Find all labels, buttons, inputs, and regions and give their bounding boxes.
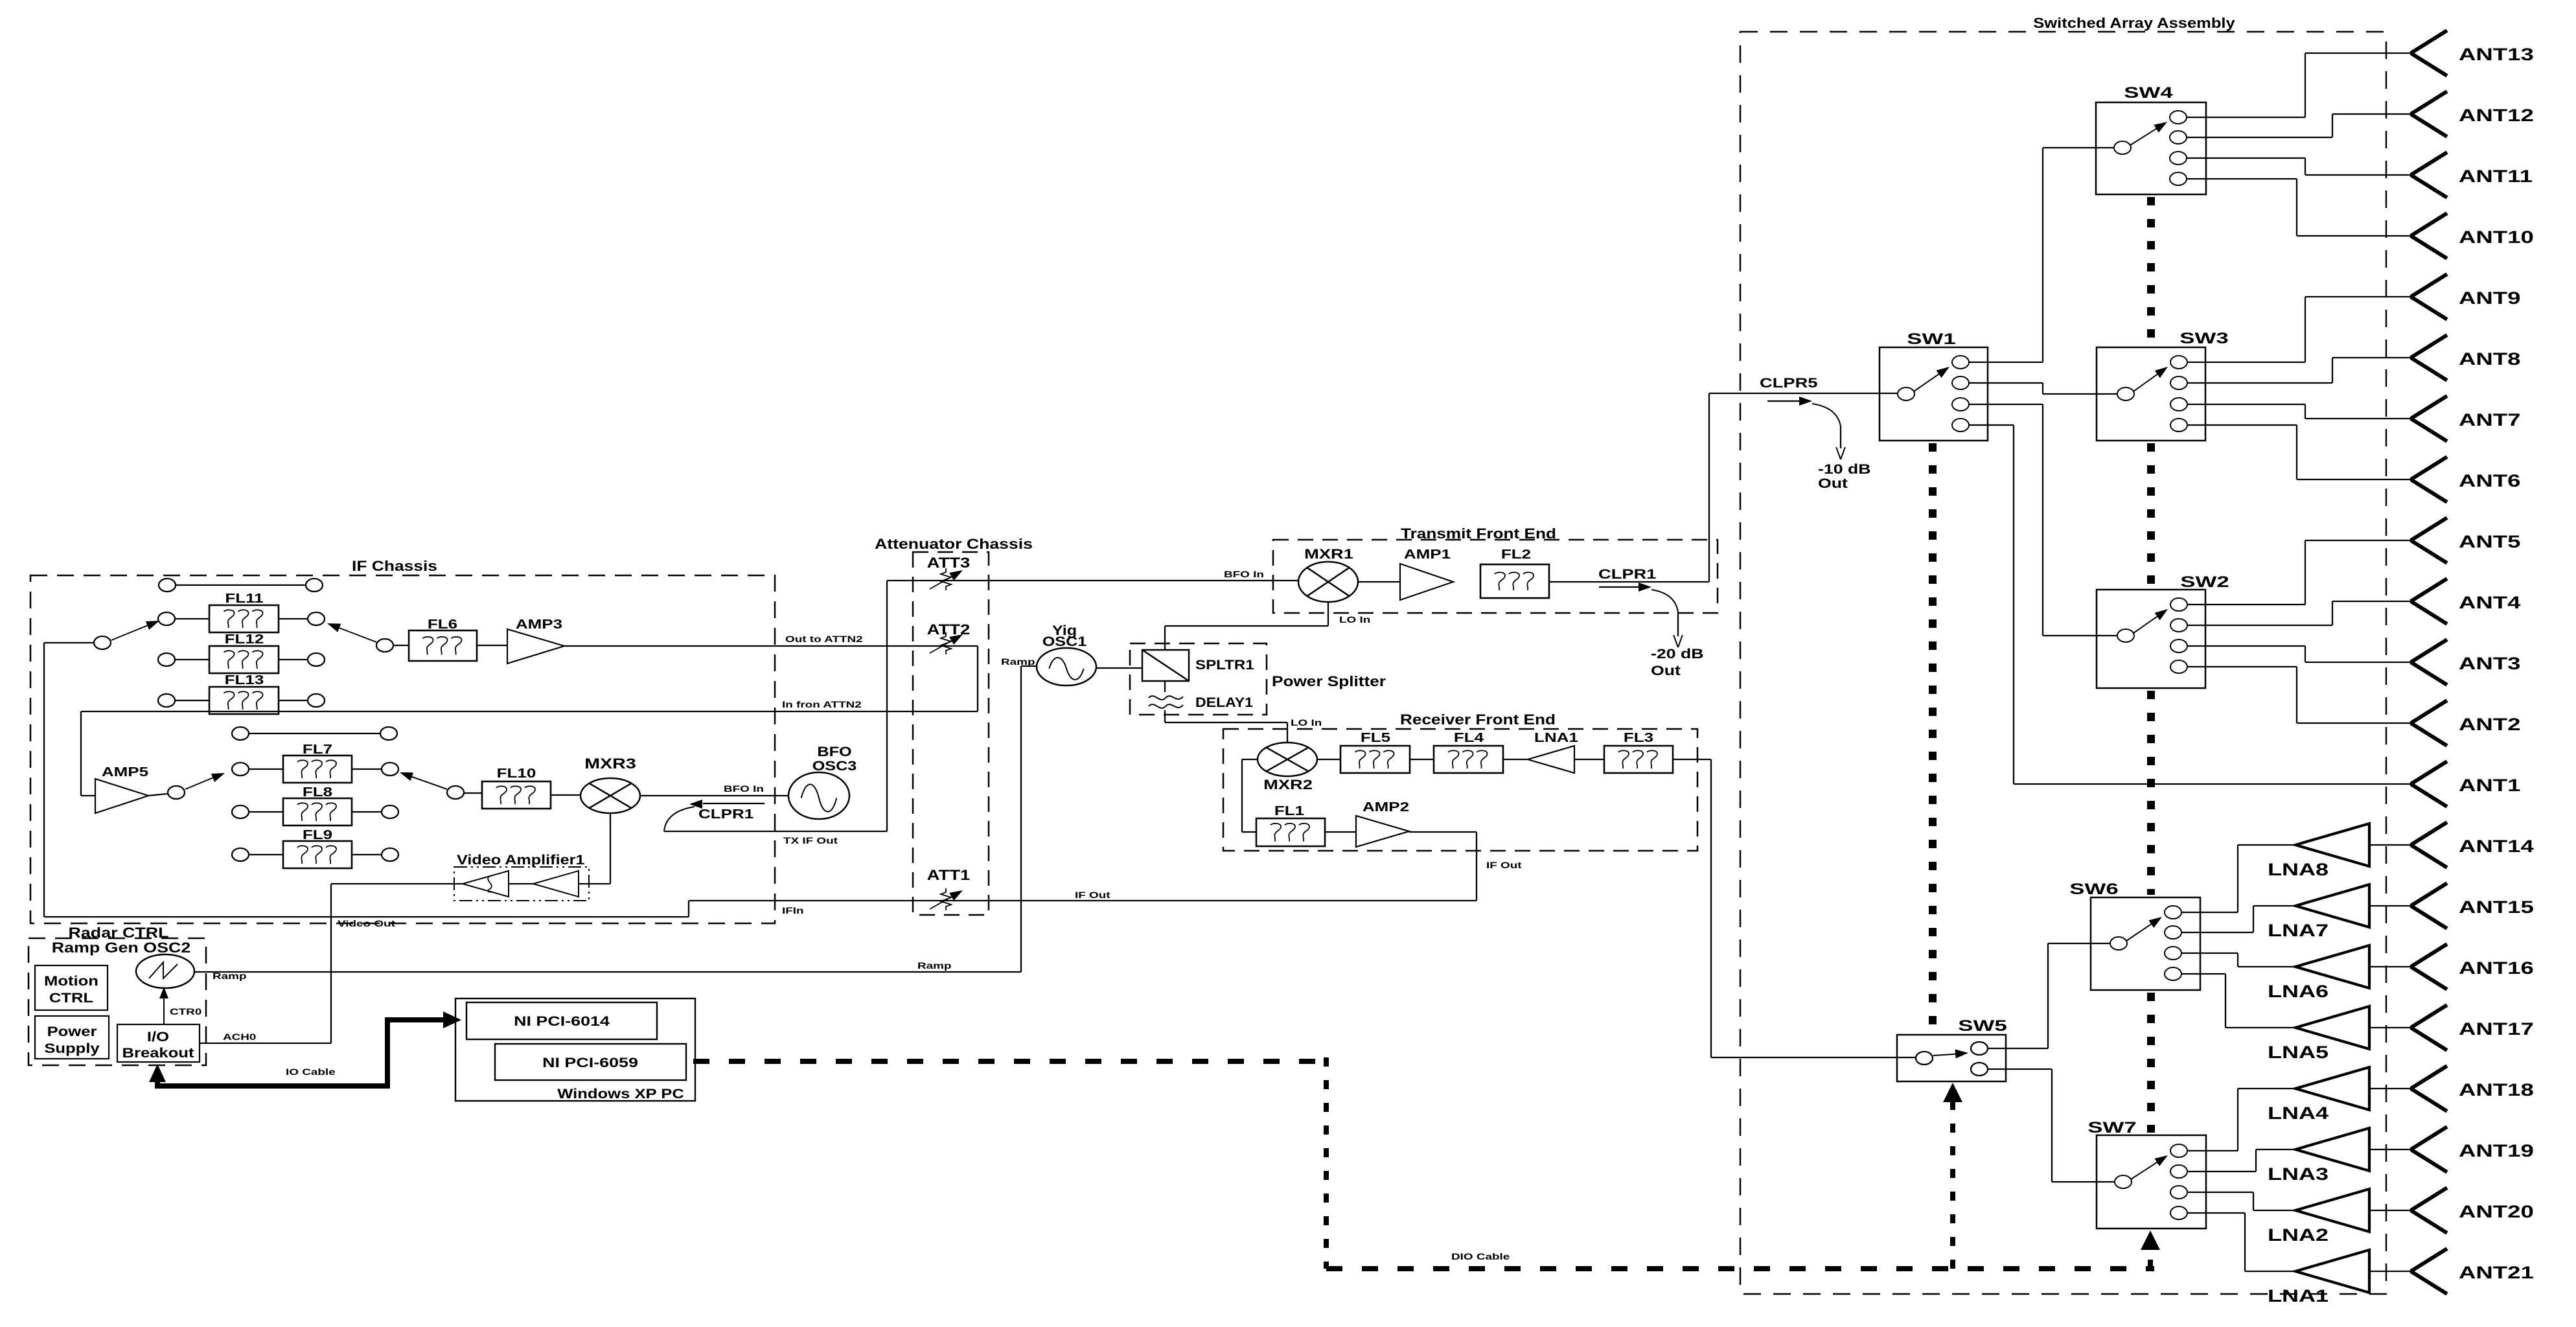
svg-text:SPLTR1: SPLTR1 — [1195, 657, 1254, 672]
svg-text:SW7: SW7 — [2087, 1119, 2136, 1136]
svg-text:IF Out: IF Out — [1075, 890, 1110, 900]
svg-text:LNA1: LNA1 — [2268, 1286, 2329, 1306]
svg-text:-10 dB: -10 dB — [1818, 462, 1871, 478]
svg-text:ANT4: ANT4 — [2459, 593, 2521, 612]
svg-text:FL13: FL13 — [225, 673, 264, 687]
svg-text:CLPR1: CLPR1 — [698, 807, 753, 821]
svg-text:FL2: FL2 — [1501, 547, 1531, 561]
svg-text:ANT19: ANT19 — [2459, 1141, 2534, 1160]
svg-text:Windows XP PC: Windows XP PC — [557, 1086, 684, 1101]
svg-text:Out: Out — [1651, 663, 1681, 679]
svg-text:LNA2: LNA2 — [2268, 1225, 2329, 1245]
svg-text:AMP2: AMP2 — [1363, 800, 1409, 814]
svg-text:CLPR1: CLPR1 — [1598, 567, 1656, 582]
svg-text:ANT9: ANT9 — [2459, 288, 2520, 308]
svg-text:IO Cable: IO Cable — [286, 1067, 336, 1077]
svg-text:CLPR5: CLPR5 — [1760, 376, 1817, 391]
svg-text:Power Splitter: Power Splitter — [1272, 674, 1386, 690]
svg-text:LNA7: LNA7 — [2268, 921, 2329, 940]
svg-text:FL4: FL4 — [1454, 730, 1484, 744]
svg-text:FL6: FL6 — [428, 617, 457, 631]
svg-text:Ramp Gen OSC2: Ramp Gen OSC2 — [52, 940, 191, 956]
svg-text:FL8: FL8 — [303, 785, 332, 799]
svg-text:AMP5: AMP5 — [102, 765, 148, 779]
svg-text:ANT16: ANT16 — [2459, 958, 2534, 978]
svg-text:SW4: SW4 — [2124, 84, 2173, 101]
svg-text:ANT13: ANT13 — [2459, 45, 2534, 64]
svg-text:FL12: FL12 — [225, 632, 264, 646]
svg-text:SW2: SW2 — [2180, 573, 2229, 590]
svg-text:I/O: I/O — [147, 1029, 169, 1044]
svg-text:AMP3: AMP3 — [516, 617, 562, 631]
svg-text:ANT8: ANT8 — [2459, 349, 2520, 369]
svg-text:ANT3: ANT3 — [2459, 654, 2520, 673]
svg-text:LNA3: LNA3 — [2268, 1164, 2329, 1184]
svg-text:OSC3: OSC3 — [812, 758, 857, 774]
svg-text:ATT1: ATT1 — [927, 868, 971, 884]
svg-text:BFO In: BFO In — [1224, 569, 1264, 579]
svg-text:FL3: FL3 — [1624, 730, 1653, 744]
svg-text:-20 dB: -20 dB — [1651, 647, 1704, 662]
svg-text:BFO: BFO — [817, 744, 851, 759]
svg-text:ANT5: ANT5 — [2459, 532, 2520, 551]
svg-text:ANT2: ANT2 — [2459, 715, 2520, 734]
svg-text:BFO In: BFO In — [724, 783, 764, 794]
svg-text:MXR2: MXR2 — [1263, 778, 1313, 792]
svg-text:In fron ATTN2: In fron ATTN2 — [782, 699, 862, 710]
svg-text:CTRL: CTRL — [49, 990, 93, 1005]
svg-text:ANT17: ANT17 — [2459, 1019, 2534, 1039]
svg-text:LO In: LO In — [1339, 614, 1370, 625]
svg-text:FL1: FL1 — [1274, 803, 1304, 818]
svg-text:FL7: FL7 — [303, 742, 332, 756]
svg-text:SW6: SW6 — [2069, 881, 2118, 897]
svg-text:Attenuator Chassis: Attenuator Chassis — [875, 537, 1033, 552]
svg-text:SW5: SW5 — [1958, 1017, 2007, 1034]
svg-text:NI PCI-6059: NI PCI-6059 — [542, 1056, 638, 1071]
svg-text:TX IF Out: TX IF Out — [783, 835, 838, 846]
svg-text:ANT21: ANT21 — [2459, 1263, 2534, 1282]
svg-text:ANT18: ANT18 — [2459, 1080, 2534, 1100]
svg-text:ANT6: ANT6 — [2459, 471, 2520, 490]
svg-text:Out to ATTN2: Out to ATTN2 — [785, 634, 863, 644]
svg-text:Switched Array Assembly: Switched Array Assembly — [2033, 16, 2235, 32]
svg-text:Receiver Front End: Receiver Front End — [1400, 712, 1556, 728]
svg-text:ANT11: ANT11 — [2459, 167, 2533, 186]
svg-text:Breakout: Breakout — [122, 1045, 194, 1060]
svg-text:Radar CTRL: Radar CTRL — [69, 925, 169, 941]
svg-text:OSC1: OSC1 — [1042, 634, 1087, 649]
svg-text:ANT10: ANT10 — [2459, 227, 2534, 247]
svg-text:Power: Power — [47, 1024, 97, 1039]
svg-text:ANT14: ANT14 — [2459, 837, 2534, 856]
svg-text:Supply: Supply — [44, 1041, 99, 1056]
svg-text:ANT20: ANT20 — [2459, 1202, 2534, 1221]
svg-text:LNA1: LNA1 — [1534, 730, 1578, 744]
svg-text:ATT2: ATT2 — [927, 622, 971, 638]
svg-text:LNA5: LNA5 — [2268, 1043, 2329, 1062]
svg-text:Ramp: Ramp — [917, 960, 952, 971]
svg-text:DIO Cable: DIO Cable — [1451, 1251, 1510, 1262]
svg-text:Video Out: Video Out — [338, 918, 395, 929]
svg-text:ANT1: ANT1 — [2459, 776, 2520, 795]
svg-text:SW3: SW3 — [2179, 330, 2228, 347]
svg-text:LO In: LO In — [1291, 717, 1322, 728]
svg-text:MXR3: MXR3 — [584, 756, 636, 772]
svg-text:ATT3: ATT3 — [927, 555, 971, 571]
svg-text:Video Amplifier1: Video Amplifier1 — [457, 852, 585, 868]
svg-text:Ramp: Ramp — [213, 971, 247, 981]
svg-text:FL9: FL9 — [303, 827, 332, 842]
svg-text:FL10: FL10 — [497, 766, 536, 780]
svg-text:ANT12: ANT12 — [2459, 106, 2534, 125]
svg-text:MXR1: MXR1 — [1304, 547, 1353, 562]
svg-text:DELAY1: DELAY1 — [1195, 695, 1253, 710]
svg-text:ANT15: ANT15 — [2459, 897, 2534, 917]
svg-text:CTR0: CTR0 — [170, 1006, 201, 1017]
svg-text:FL5: FL5 — [1361, 730, 1390, 744]
svg-text:Motion: Motion — [44, 973, 98, 988]
svg-text:ACH0: ACH0 — [223, 1032, 256, 1042]
svg-text:LNA8: LNA8 — [2268, 860, 2329, 879]
svg-text:AMP1: AMP1 — [1404, 547, 1451, 561]
svg-text:LNA6: LNA6 — [2268, 982, 2329, 1001]
svg-text:IFIn: IFIn — [782, 905, 804, 916]
svg-text:IF Chassis: IF Chassis — [352, 559, 437, 574]
svg-text:LNA4: LNA4 — [2268, 1103, 2329, 1123]
svg-text:NI PCI-6014: NI PCI-6014 — [514, 1014, 610, 1030]
svg-text:ANT7: ANT7 — [2459, 410, 2520, 430]
svg-text:IF Out: IF Out — [1486, 860, 1522, 870]
svg-text:Out: Out — [1818, 476, 1848, 492]
svg-text:SW1: SW1 — [1907, 330, 1955, 347]
svg-text:FL11: FL11 — [225, 591, 263, 605]
